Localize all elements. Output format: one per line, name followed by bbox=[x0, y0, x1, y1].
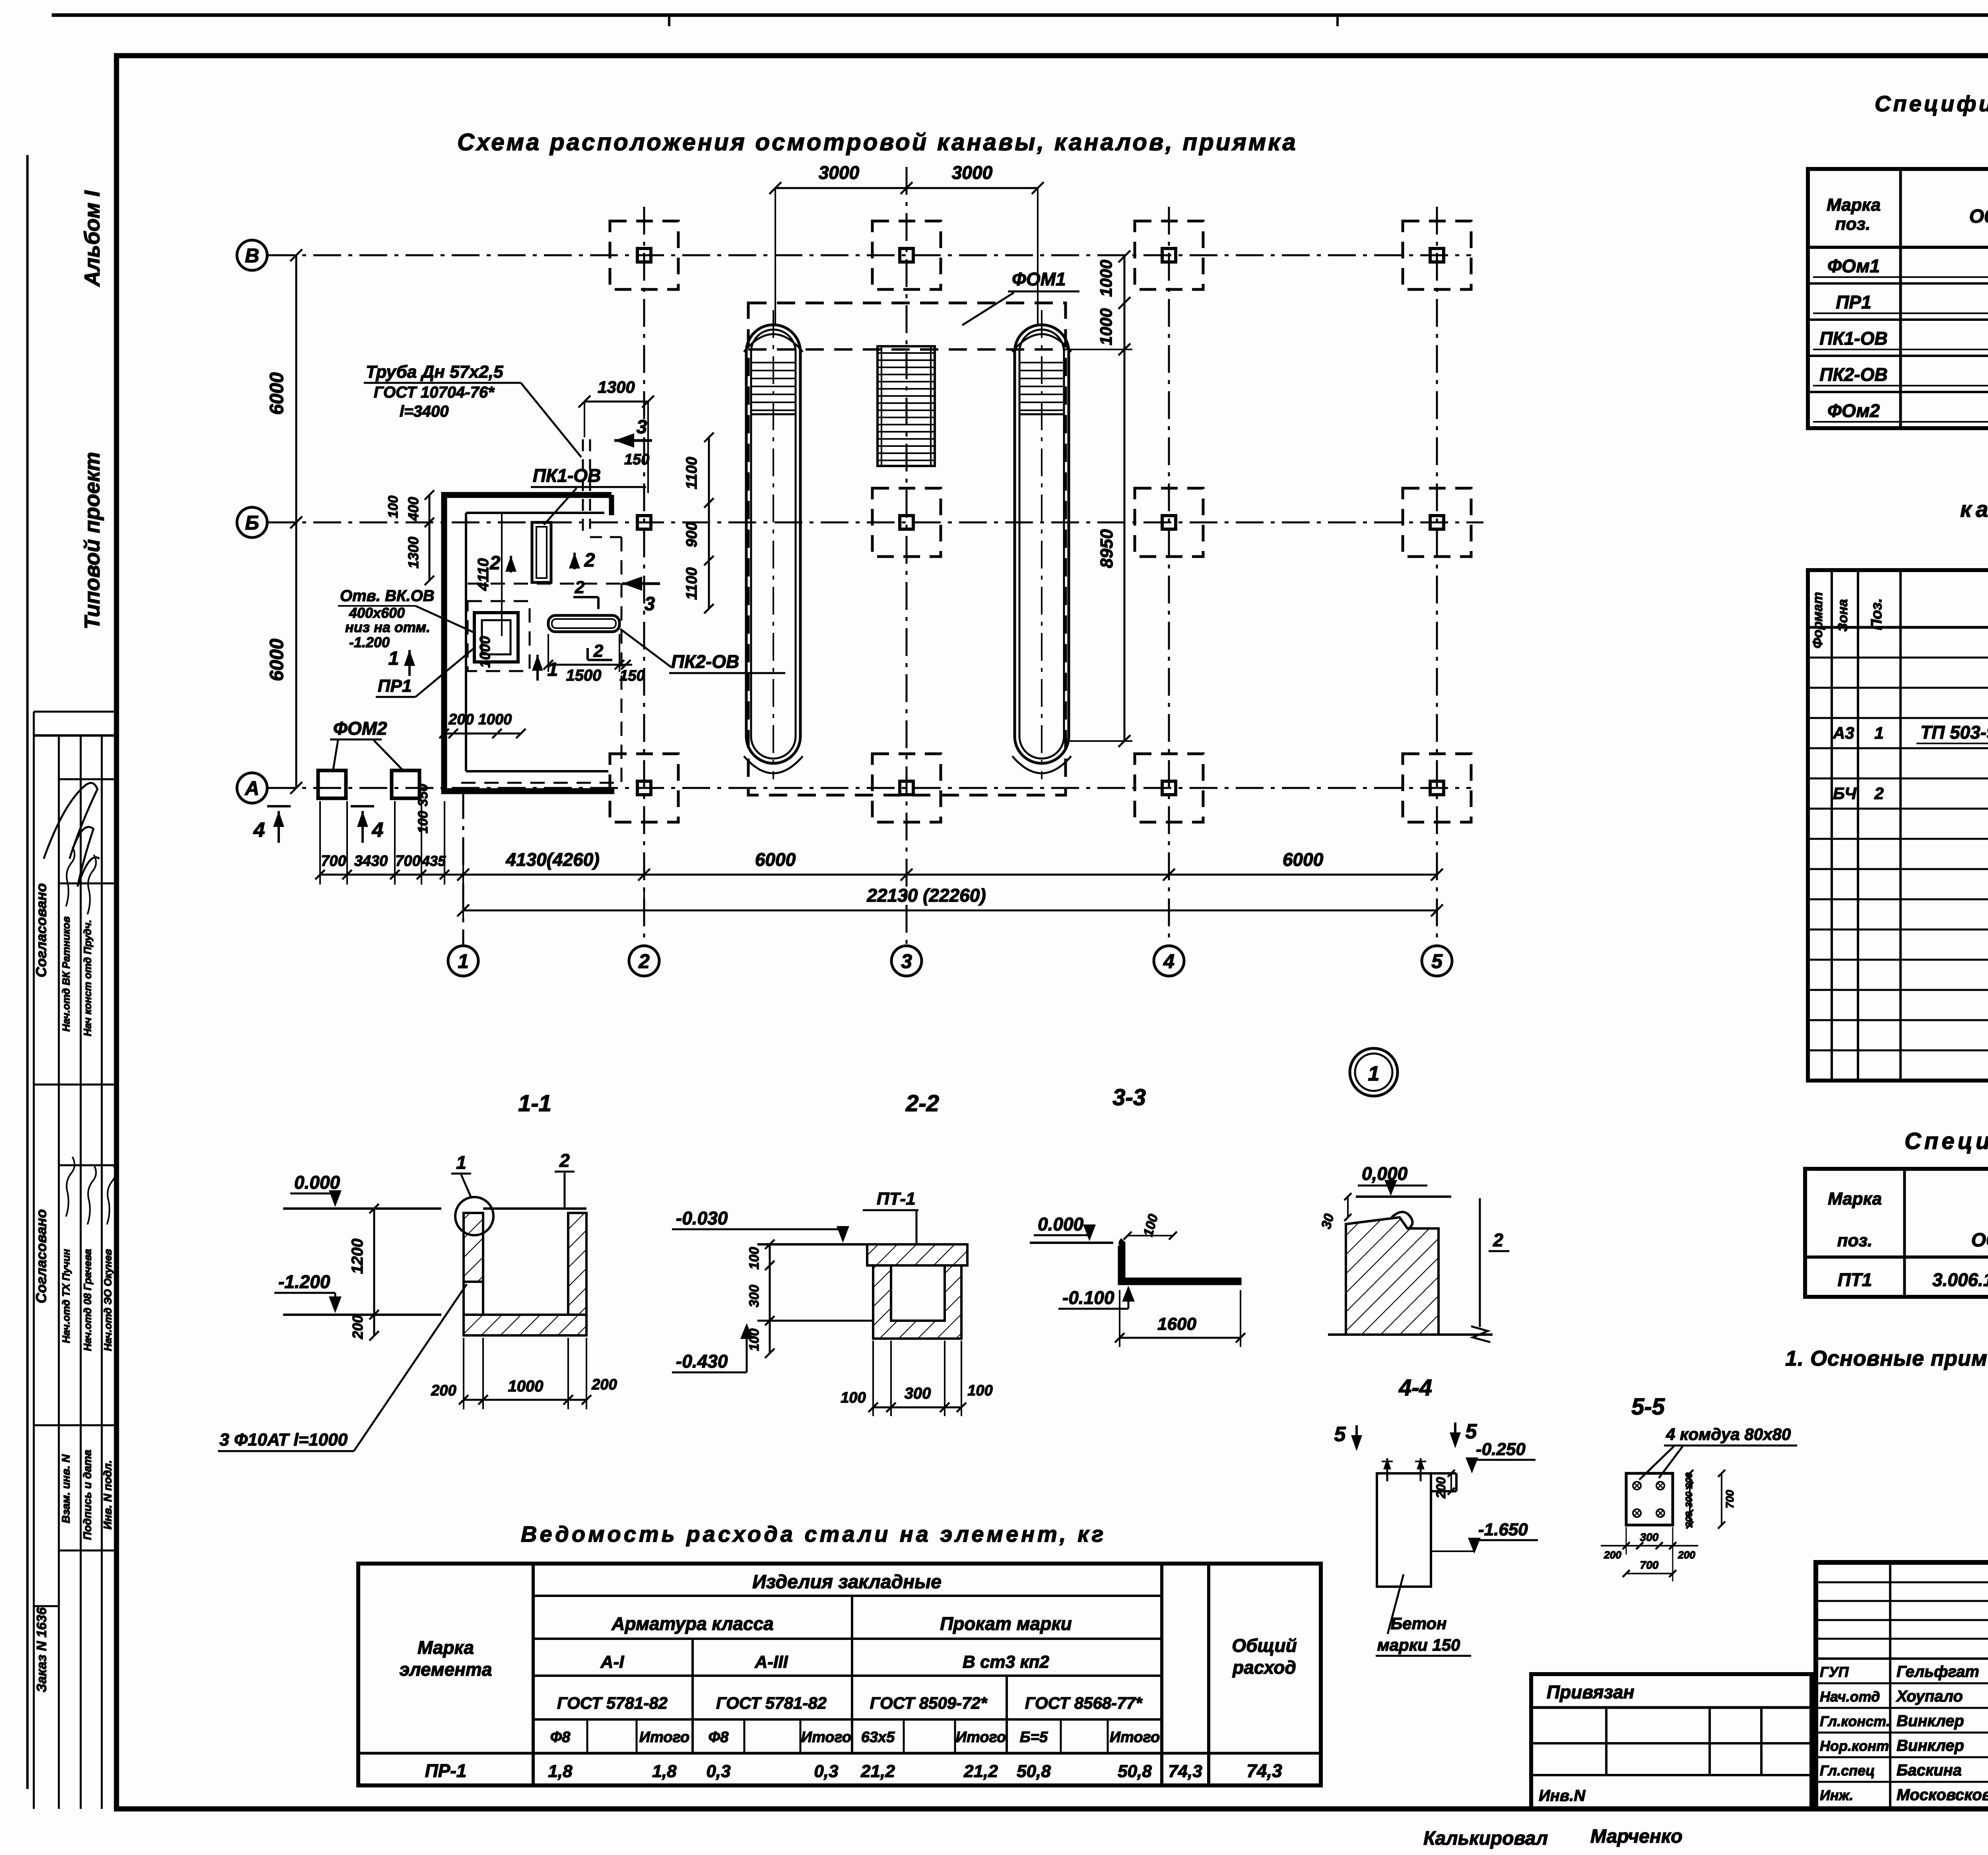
svg-text:БЧ: БЧ bbox=[1833, 784, 1857, 803]
svg-text:Итого: Итого bbox=[639, 1729, 689, 1746]
svg-text:2: 2 bbox=[1493, 1230, 1503, 1250]
svg-text:Ведомость расхода ст: Ведомость расхода стали на элемент, кг bbox=[521, 1521, 1106, 1546]
svg-text:300: 300 bbox=[747, 1285, 762, 1308]
svg-text:6000: 6000 bbox=[755, 849, 796, 870]
svg-text:ПР-1: ПР-1 bbox=[425, 1760, 467, 1781]
svg-text:700: 700 bbox=[321, 853, 346, 869]
svg-text:50,8: 50,8 bbox=[1118, 1762, 1152, 1781]
svg-text:Инв. N подл.: Инв. N подл. bbox=[101, 1460, 114, 1529]
svg-text:150: 150 bbox=[619, 667, 645, 684]
svg-text:6000: 6000 bbox=[266, 638, 287, 681]
svg-text:2-2: 2-2 bbox=[905, 1090, 939, 1116]
svg-text:1200: 1200 bbox=[349, 1239, 366, 1274]
svg-text:Спецификация сборных: Спецификация сборных элементов bbox=[1905, 1128, 1988, 1154]
svg-text:Московскова: Московскова bbox=[1897, 1786, 1988, 1804]
svg-text:ГОСТ 8509-72*: ГОСТ 8509-72* bbox=[870, 1694, 988, 1712]
svg-text:ГОСТ 5781-82: ГОСТ 5781-82 bbox=[716, 1694, 827, 1712]
svg-text:ПР1: ПР1 bbox=[1836, 292, 1871, 312]
svg-text:Отв. ВК.ОВ: Отв. ВК.ОВ bbox=[340, 587, 435, 605]
svg-text:Нач.отд 08 Грачева: Нач.отд 08 Грачева bbox=[82, 1249, 93, 1351]
svg-text:поз.: поз. bbox=[1837, 1231, 1872, 1250]
svg-text:350: 350 bbox=[415, 784, 431, 807]
svg-text:200: 200 bbox=[1684, 1511, 1695, 1528]
svg-text:4110: 4110 bbox=[475, 558, 492, 591]
svg-text:1,8: 1,8 bbox=[548, 1762, 573, 1781]
svg-text:Обозначение: Обозначение bbox=[1971, 1230, 1988, 1251]
svg-text:Б: Б bbox=[245, 512, 259, 534]
svg-text:Итого: Итого bbox=[801, 1729, 851, 1746]
svg-text:200: 200 bbox=[1604, 1549, 1621, 1561]
svg-text:Нач.отд ЭО Окунев: Нач.отд ЭО Окунев bbox=[102, 1249, 114, 1351]
svg-text:2: 2 bbox=[638, 950, 650, 972]
svg-text:А-III: А-III bbox=[754, 1652, 788, 1672]
svg-text:Нор.конт: Нор.конт bbox=[1820, 1738, 1889, 1754]
svg-text:-1.650: -1.650 bbox=[1478, 1520, 1528, 1539]
svg-text:100: 100 bbox=[747, 1247, 762, 1270]
svg-text:ПК1-ОВ: ПК1-ОВ bbox=[1819, 328, 1887, 349]
svg-text:Инв.N: Инв.N bbox=[1539, 1787, 1586, 1805]
svg-text:3000: 3000 bbox=[952, 162, 993, 183]
svg-text:5: 5 bbox=[1334, 1423, 1346, 1446]
svg-text:Гл.спец: Гл.спец bbox=[1820, 1762, 1875, 1779]
svg-text:расход: расход bbox=[1232, 1657, 1296, 1678]
svg-text:100: 100 bbox=[967, 1382, 992, 1399]
svg-text:900: 900 bbox=[683, 522, 700, 547]
svg-text:4 комдуа 80х80: 4 комдуа 80х80 bbox=[1666, 1425, 1791, 1444]
svg-text:100: 100 bbox=[415, 811, 431, 834]
svg-text:ПК2-ОВ: ПК2-ОВ bbox=[1819, 364, 1887, 385]
svg-text:А: А bbox=[244, 777, 259, 799]
svg-text:ТП 503-9-8.85-КЖИ-060: ТП 503-9-8.85-КЖИ-060 bbox=[1920, 722, 1988, 743]
svg-text:3.006.1-2/82 вып. 1-1: 3.006.1-2/82 вып. 1-1 bbox=[1932, 1269, 1988, 1290]
svg-text:300: 300 bbox=[905, 1385, 931, 1402]
svg-text:1: 1 bbox=[1368, 1062, 1380, 1085]
svg-text:1300: 1300 bbox=[405, 537, 421, 569]
svg-text:1300: 1300 bbox=[598, 378, 635, 396]
svg-text:В ст3 кп2: В ст3 кп2 bbox=[963, 1652, 1049, 1672]
svg-text:Бетон: Бетон bbox=[1391, 1614, 1447, 1633]
svg-text:1000: 1000 bbox=[1097, 308, 1115, 345]
svg-text:0.000: 0.000 bbox=[294, 1172, 340, 1193]
svg-text:1: 1 bbox=[458, 950, 469, 972]
svg-text:Спецификация к схеме расп: Спецификация к схеме расположения осмотр… bbox=[1875, 91, 1988, 116]
svg-text:-0.250: -0.250 bbox=[1476, 1440, 1526, 1459]
svg-text:Обозначение: Обозначение bbox=[1969, 206, 1988, 227]
svg-text:Марка: Марка bbox=[1828, 1189, 1882, 1209]
svg-text:700: 700 bbox=[1640, 1559, 1659, 1571]
svg-text:Взам. инв. N: Взам. инв. N bbox=[60, 1454, 72, 1523]
svg-text:4: 4 bbox=[253, 819, 265, 842]
svg-text:1000: 1000 bbox=[1097, 260, 1115, 297]
svg-text:ПТ1: ПТ1 bbox=[1838, 1269, 1872, 1290]
svg-text:Винклер: Винклер bbox=[1897, 1737, 1964, 1754]
svg-text:А3: А3 bbox=[1833, 724, 1854, 742]
svg-text:Зона: Зона bbox=[1835, 599, 1850, 632]
svg-text:5: 5 bbox=[1431, 950, 1443, 972]
svg-text:-0.430: -0.430 bbox=[676, 1351, 728, 1372]
svg-text:3: 3 bbox=[637, 417, 647, 438]
svg-text:150: 150 bbox=[624, 451, 649, 468]
svg-text:3-3: 3-3 bbox=[1112, 1085, 1146, 1110]
svg-text:1. Основные примечания: 1. Основные примечания смотреть лист 6 bbox=[1785, 1347, 1988, 1370]
svg-text:-1.200: -1.200 bbox=[349, 634, 390, 650]
svg-text:21,2: 21,2 bbox=[963, 1762, 998, 1781]
svg-text:Поз.: Поз. bbox=[1868, 598, 1885, 631]
svg-text:ПТ-1: ПТ-1 bbox=[877, 1189, 916, 1209]
svg-text:Гельфгат: Гельфгат bbox=[1897, 1663, 1979, 1680]
svg-text:Гл.конст.: Гл.конст. bbox=[1820, 1713, 1890, 1729]
svg-text:Винклер: Винклер bbox=[1897, 1712, 1964, 1730]
svg-text:400х600: 400х600 bbox=[349, 605, 405, 621]
svg-text:ГУП: ГУП bbox=[1820, 1664, 1849, 1680]
svg-text:200: 200 bbox=[431, 1382, 456, 1399]
svg-text:100: 100 bbox=[386, 496, 401, 518]
svg-text:Марченко: Марченко bbox=[1590, 1826, 1683, 1847]
svg-text:Согласовано: Согласовано bbox=[33, 883, 49, 978]
svg-text:-1.200: -1.200 bbox=[278, 1271, 330, 1292]
svg-text:1100: 1100 bbox=[683, 457, 700, 489]
svg-text:Согласовано: Согласовано bbox=[33, 1209, 49, 1304]
svg-text:элемента: элемента bbox=[400, 1659, 492, 1680]
svg-text:0,3: 0,3 bbox=[814, 1762, 838, 1781]
svg-text:Общий: Общий bbox=[1232, 1635, 1297, 1656]
svg-text:1,8: 1,8 bbox=[652, 1762, 677, 1781]
svg-text:1: 1 bbox=[1874, 724, 1883, 742]
svg-text:Итого: Итого bbox=[956, 1729, 1006, 1746]
svg-text:Калькировал: Калькировал bbox=[1423, 1828, 1548, 1849]
svg-text:700: 700 bbox=[395, 853, 420, 869]
svg-text:ФОм1: ФОм1 bbox=[1827, 256, 1880, 276]
svg-text:ФОм2: ФОм2 bbox=[1827, 400, 1880, 421]
svg-text:700: 700 bbox=[1724, 1490, 1736, 1508]
svg-text:Марка: Марка bbox=[1827, 195, 1881, 215]
svg-text:1600: 1600 bbox=[1157, 1314, 1196, 1334]
svg-text:200: 200 bbox=[448, 711, 474, 728]
svg-text:1-1: 1-1 bbox=[518, 1090, 551, 1116]
svg-text:Альбом I: Альбом I bbox=[80, 190, 104, 287]
svg-text:4: 4 bbox=[1163, 950, 1175, 972]
svg-text:8950: 8950 bbox=[1097, 529, 1116, 568]
svg-text:5-5: 5-5 bbox=[1631, 1394, 1665, 1420]
svg-text:2: 2 bbox=[559, 1150, 570, 1171]
svg-text:-0.100: -0.100 bbox=[1062, 1287, 1114, 1308]
svg-text:Б=5: Б=5 bbox=[1020, 1729, 1048, 1746]
svg-text:4: 4 bbox=[372, 819, 384, 842]
svg-text:63х5: 63х5 bbox=[861, 1729, 895, 1746]
svg-text:Хоупало: Хоупало bbox=[1896, 1688, 1963, 1705]
svg-text:Схема расположения осмотрово: Схема расположения осмотровой канавы, ка… bbox=[457, 129, 1298, 155]
svg-text:ГОСТ 10704-76*: ГОСТ 10704-76* bbox=[374, 384, 495, 401]
svg-text:ГОСТ 5781-82: ГОСТ 5781-82 bbox=[557, 1694, 668, 1712]
svg-text:Марка: Марка bbox=[417, 1637, 474, 1658]
svg-text:Нач конст отд Прудч.: Нач конст отд Прудч. bbox=[82, 920, 93, 1036]
svg-text:100: 100 bbox=[747, 1329, 762, 1351]
svg-text:поз.: поз. bbox=[1835, 214, 1870, 234]
svg-text:Итого: Итого bbox=[1110, 1729, 1160, 1746]
svg-text:6000: 6000 bbox=[1283, 849, 1324, 870]
svg-text:ПК2-ОВ: ПК2-ОВ bbox=[671, 651, 739, 672]
svg-text:1100: 1100 bbox=[683, 567, 700, 600]
svg-text:74,3: 74,3 bbox=[1168, 1762, 1202, 1781]
svg-text:1000: 1000 bbox=[477, 636, 493, 668]
svg-text:Баскина: Баскина bbox=[1897, 1762, 1962, 1779]
svg-text:Инж.: Инж. bbox=[1820, 1787, 1853, 1803]
svg-text:74,3: 74,3 bbox=[1246, 1760, 1282, 1781]
svg-text:ФОМ1: ФОМ1 bbox=[1012, 269, 1066, 289]
svg-text:1000: 1000 bbox=[478, 711, 512, 728]
svg-text:ФОМ2: ФОМ2 bbox=[333, 718, 387, 739]
svg-text:Нач.отд ВК Ратников: Нач.отд ВК Ратников bbox=[60, 916, 72, 1032]
svg-text:200: 200 bbox=[1684, 1472, 1695, 1489]
svg-text:Ф8: Ф8 bbox=[550, 1729, 571, 1746]
svg-text:0,3: 0,3 bbox=[706, 1762, 730, 1781]
svg-text:3: 3 bbox=[645, 594, 655, 615]
svg-text:Нач.отд ТХ Пучин: Нач.отд ТХ Пучин bbox=[60, 1249, 72, 1343]
svg-text:Труба Дн 57х2,5: Труба Дн 57х2,5 bbox=[366, 362, 503, 382]
svg-text:200: 200 bbox=[591, 1376, 617, 1393]
svg-text:0.000: 0.000 bbox=[1038, 1214, 1084, 1234]
svg-text:2: 2 bbox=[1874, 784, 1883, 803]
svg-text:1500: 1500 bbox=[566, 667, 602, 684]
svg-text:100: 100 bbox=[841, 1389, 866, 1406]
svg-text:200: 200 bbox=[1677, 1549, 1695, 1561]
svg-text:2: 2 bbox=[593, 641, 604, 661]
svg-text:4-4: 4-4 bbox=[1398, 1375, 1432, 1401]
svg-text:3430: 3430 bbox=[354, 853, 388, 869]
svg-text:Прокат марки: Прокат марки bbox=[940, 1613, 1072, 1634]
svg-text:Подпись и дата: Подпись и дата bbox=[81, 1450, 93, 1540]
svg-text:3000: 3000 bbox=[819, 162, 860, 183]
svg-text:В: В bbox=[245, 244, 259, 267]
svg-text:435: 435 bbox=[421, 853, 446, 869]
svg-text:21,2: 21,2 bbox=[860, 1762, 895, 1781]
svg-text:каналов ПК1-ОВ, ПК2-ОВ и: каналов ПК1-ОВ, ПК2-ОВ и приямка ПР1 bbox=[1960, 497, 1988, 522]
svg-text:300: 300 bbox=[1640, 1531, 1659, 1543]
svg-text:6000: 6000 bbox=[266, 372, 287, 415]
svg-text:ГОСТ 8568-77*: ГОСТ 8568-77* bbox=[1025, 1694, 1143, 1712]
svg-text:Привязан: Привязан bbox=[1547, 1682, 1634, 1702]
svg-text:Формат: Формат bbox=[1810, 592, 1825, 648]
svg-text:Нач.отд: Нач.отд bbox=[1820, 1688, 1880, 1705]
svg-text:1000: 1000 bbox=[508, 1378, 544, 1395]
svg-text:А-I: А-I bbox=[600, 1652, 624, 1672]
svg-text:-0.030: -0.030 bbox=[676, 1208, 728, 1228]
svg-text:3: 3 bbox=[901, 950, 912, 972]
svg-text:l=3400: l=3400 bbox=[400, 403, 448, 420]
svg-text:50,8: 50,8 bbox=[1017, 1762, 1051, 1781]
svg-text:2: 2 bbox=[584, 550, 595, 571]
svg-text:2: 2 bbox=[575, 578, 585, 597]
svg-text:22130 (22260): 22130 (22260) bbox=[866, 885, 986, 906]
svg-text:марки 150: марки 150 bbox=[1377, 1636, 1460, 1654]
svg-text:0,000: 0,000 bbox=[1362, 1163, 1408, 1184]
svg-text:Типовой проект: Типовой проект bbox=[80, 452, 104, 630]
svg-text:Ф8: Ф8 bbox=[709, 1729, 729, 1746]
svg-text:3 Ф10АТ l=1000: 3 Ф10АТ l=1000 bbox=[219, 1430, 348, 1449]
svg-text:Изделия закладные: Изделия закладные bbox=[752, 1572, 942, 1593]
svg-text:200: 200 bbox=[349, 1315, 366, 1339]
svg-text:1: 1 bbox=[456, 1152, 466, 1173]
svg-text:ПР1: ПР1 bbox=[378, 676, 412, 696]
svg-text:400: 400 bbox=[405, 497, 421, 521]
svg-text:200: 200 bbox=[1434, 1477, 1448, 1499]
svg-text:Заказ N 1636: Заказ N 1636 bbox=[34, 1607, 49, 1692]
svg-text:Арматура класса: Арматура класса bbox=[611, 1613, 774, 1634]
svg-text:низ на отм.: низ на отм. bbox=[345, 619, 430, 635]
svg-text:1: 1 bbox=[388, 648, 399, 669]
svg-text:300: 300 bbox=[1684, 1491, 1695, 1508]
svg-text:4130(4260): 4130(4260) bbox=[505, 849, 599, 870]
